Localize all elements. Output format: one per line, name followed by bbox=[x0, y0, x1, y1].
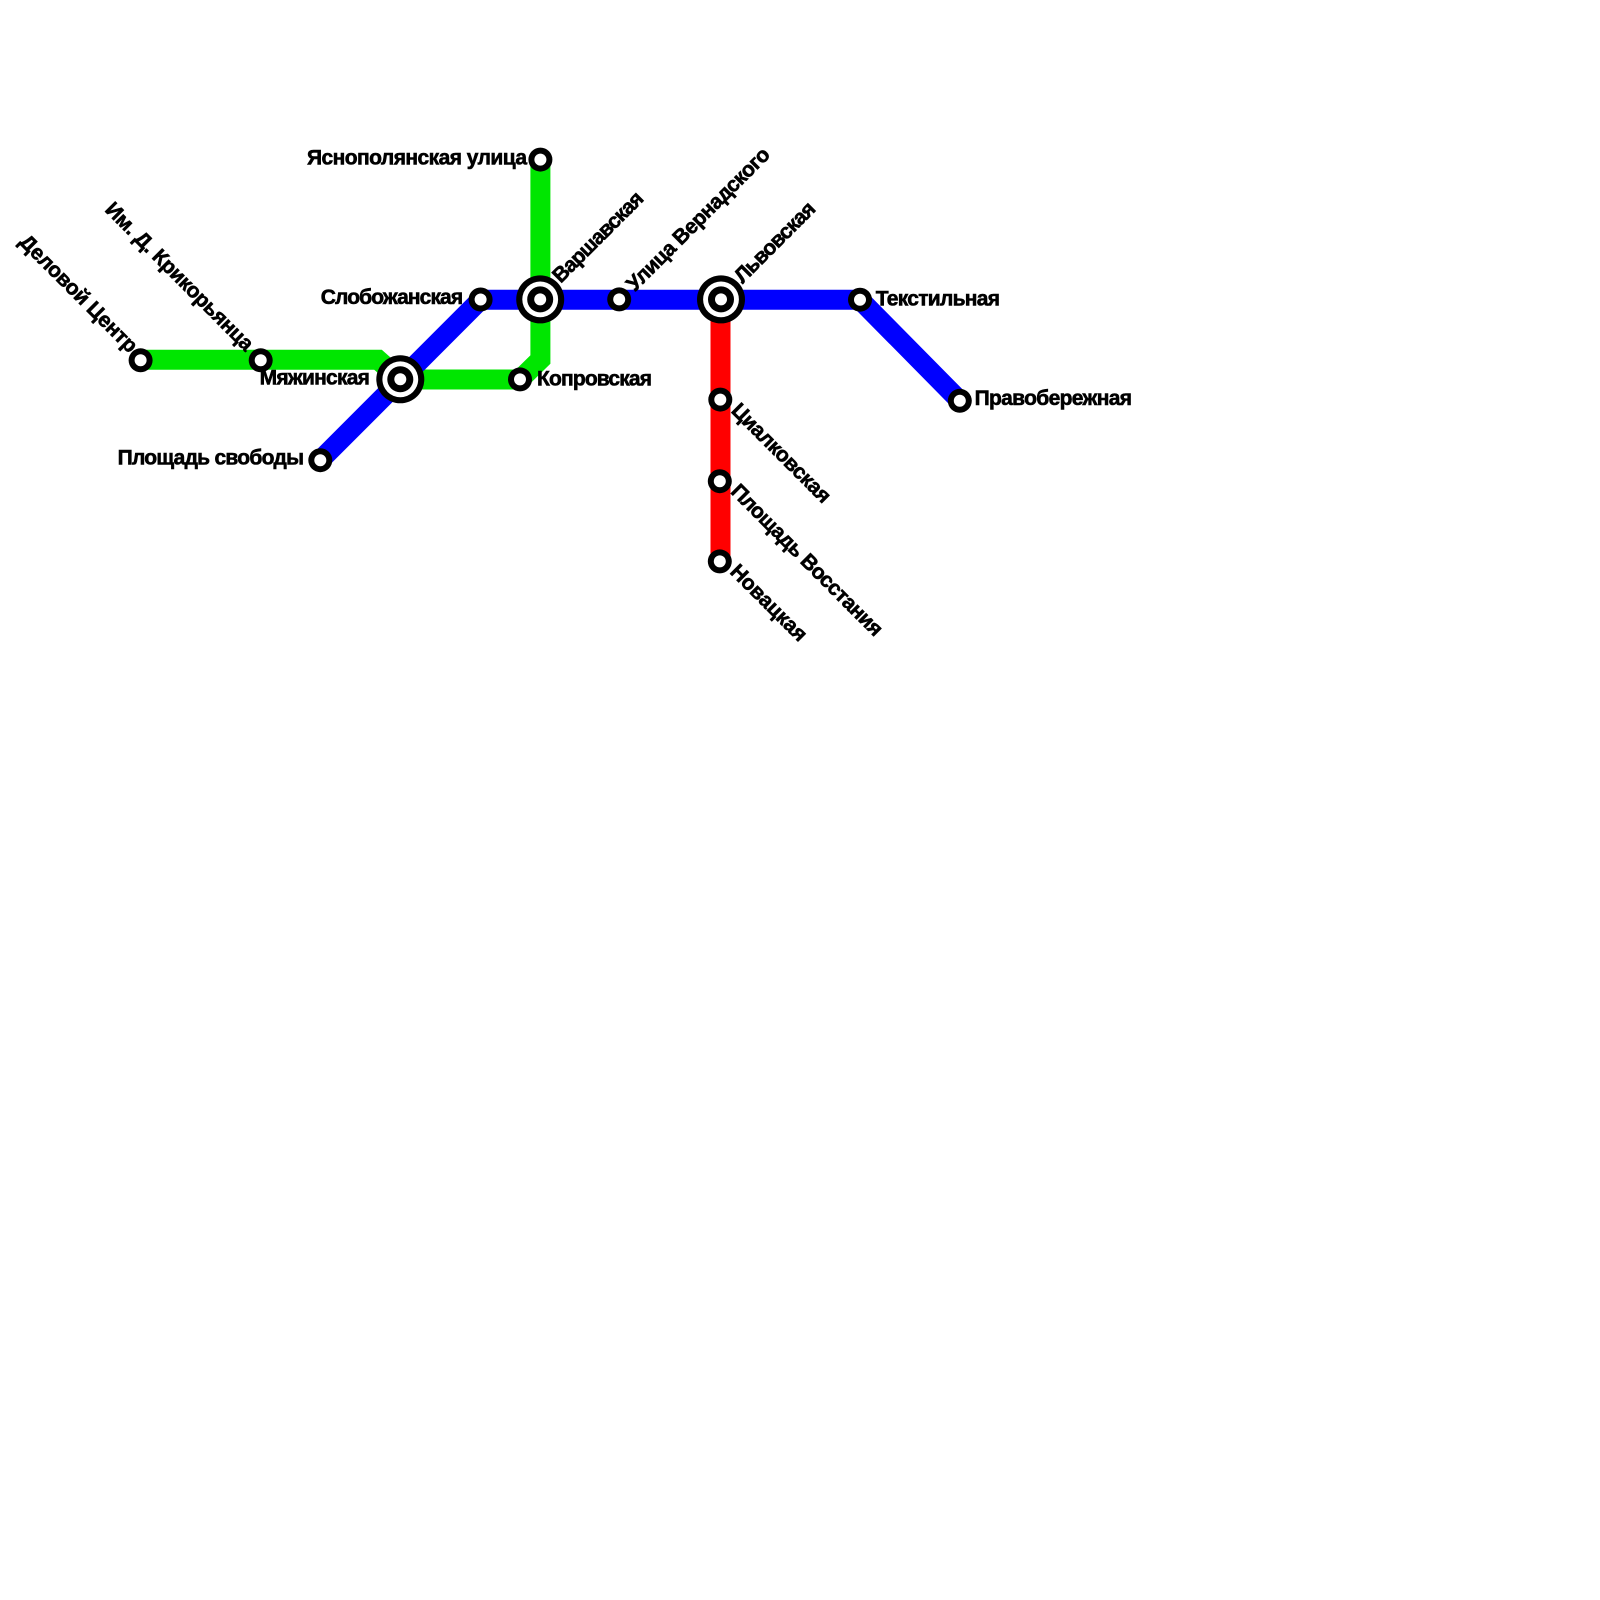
station Новацкая bbox=[708, 549, 732, 573]
svg-text:Мяжинская: Мяжинская bbox=[260, 367, 370, 390]
station Улица Вернадского bbox=[607, 287, 631, 311]
svg-text:Текстильная: Текстильная bbox=[876, 287, 1000, 310]
blue line (Площадь свободы - Правобережная) bbox=[320, 300, 960, 461]
interchange Львовская bbox=[697, 275, 745, 323]
svg-text:Правобережная: Правобережная bbox=[975, 387, 1132, 410]
svg-text:Площадь свободы: Площадь свободы bbox=[118, 447, 304, 470]
station Правобережная bbox=[948, 389, 972, 413]
station Им. Д. Крикорьянца bbox=[249, 348, 273, 372]
station Яснополянская улица bbox=[528, 148, 552, 172]
station Площадь свободы bbox=[308, 448, 332, 472]
station Текстильная bbox=[848, 288, 872, 312]
red line (Львовская - Новацкая) bbox=[711, 300, 731, 562]
svg-text:Слобожанская: Слобожанская bbox=[321, 286, 463, 309]
svg-text:Яснополянская улица: Яснополянская улица bbox=[307, 146, 527, 169]
station Площадь Восстания bbox=[708, 469, 732, 493]
station Циалковская bbox=[708, 388, 732, 412]
station Деловой Центр bbox=[129, 348, 153, 372]
green line (Деловой Центр - Яснополянская улица) bbox=[141, 160, 541, 380]
station Копровская bbox=[508, 367, 532, 391]
interchange Мяжинская bbox=[376, 355, 424, 403]
station Слобожанская bbox=[469, 288, 493, 312]
svg-text:Копровская: Копровская bbox=[537, 367, 652, 390]
interchange Варшавская bbox=[516, 275, 564, 323]
